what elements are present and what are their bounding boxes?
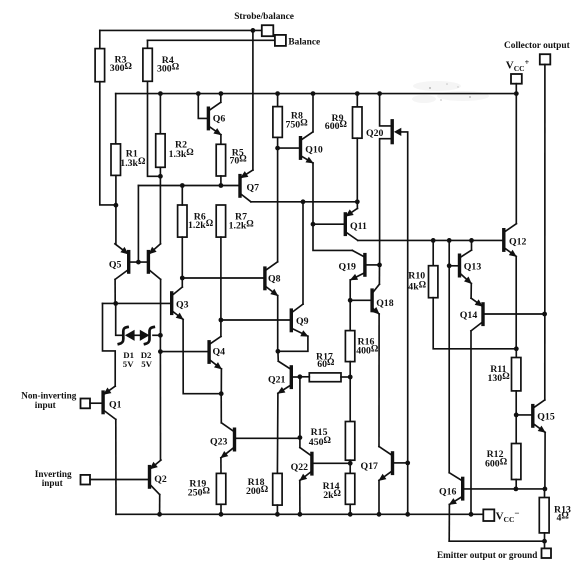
junction Q5 left emitter Q3 base xyxy=(113,301,118,306)
junction Q4 emitter Q3 emitter xyxy=(219,391,224,396)
svg-text:Q16: Q16 xyxy=(439,487,457,498)
svg-text:Q20: Q20 xyxy=(366,128,384,139)
svg-text:Q6: Q6 xyxy=(213,114,226,125)
resistor R5 xyxy=(216,144,225,176)
junction R10 top xyxy=(431,238,436,243)
junction Q13 base col xyxy=(447,238,452,243)
wire Q13 emitter to Q14 xyxy=(470,284,472,299)
wire Q1 base lead xyxy=(90,402,102,404)
wire Q23 emitter to R19 xyxy=(220,458,222,474)
wire Vcc+ lead xyxy=(515,84,517,94)
wire Q14 collector down to rail xyxy=(470,331,472,514)
wire R3 top lead xyxy=(99,30,101,48)
resistor R19 xyxy=(216,473,225,504)
wire Q2 emitter down xyxy=(159,495,161,515)
wire Q5 left collector down xyxy=(114,279,116,303)
junction Q23 base Q22 collector xyxy=(298,435,303,440)
junction strobe node xyxy=(251,28,256,33)
svg-text:Q21: Q21 xyxy=(268,375,286,386)
wire R1 top lead xyxy=(115,94,117,144)
svg-text:Q10: Q10 xyxy=(305,145,323,156)
junction R12 bottom xyxy=(514,487,519,492)
svg-text:5V: 5V xyxy=(123,359,134,369)
junction bus Q10 xyxy=(311,91,316,96)
wire R13 bottom lead xyxy=(544,533,546,541)
wire R11 bottom lead xyxy=(515,391,517,415)
svg-text:Q11: Q11 xyxy=(350,221,367,232)
junction R2 R4 xyxy=(158,174,163,179)
wire R6 top lead xyxy=(181,186,183,206)
junction Q9 base R7 line xyxy=(219,318,224,323)
wire R19 bottom lead xyxy=(220,504,222,514)
terminal Strobe/balance xyxy=(262,25,274,36)
junction R1 R3 xyxy=(114,203,119,208)
junction rail Q20 line xyxy=(405,512,410,517)
junction R13 emitter output xyxy=(542,539,547,544)
wire Q1 collector up with jog xyxy=(103,303,116,386)
wire Vcc+ bus xyxy=(116,93,517,95)
wire R13 top lead xyxy=(544,489,546,498)
wire Q17 base xyxy=(394,462,408,464)
resistor R16 xyxy=(345,331,354,362)
resistor R8 xyxy=(273,107,282,138)
transistor Q15 xyxy=(533,400,546,433)
wire D2 to node xyxy=(153,334,160,336)
resistor R14 xyxy=(345,473,354,504)
wire R6 bottom lead xyxy=(181,237,183,278)
wire node to Q5 right emitter xyxy=(159,176,161,244)
junction R11 Q12 emitter xyxy=(514,346,519,351)
wire R3 bottom to R1 node xyxy=(100,82,116,205)
resistor R4 xyxy=(143,48,152,81)
wire Q6 emitter to R5 xyxy=(220,135,222,145)
wire to R12 xyxy=(515,415,517,444)
resistor R12 xyxy=(512,444,521,480)
transistor Q13 xyxy=(460,250,472,284)
junction bus Q20 xyxy=(377,91,382,96)
wire to emitter output terminal xyxy=(544,541,546,548)
wire down to Q23 collector xyxy=(220,394,222,423)
wire Q18 base xyxy=(350,299,370,301)
junction Q11 base tap xyxy=(311,222,316,227)
wire R8 node to Q8 collector xyxy=(277,148,279,262)
wire Q8 base line xyxy=(182,277,263,279)
svg-text:Q19: Q19 xyxy=(339,261,357,272)
transistor Q18 xyxy=(372,284,380,314)
junction Q4 base xyxy=(158,349,163,354)
terminal Collector output xyxy=(540,54,551,64)
wire D1 D2 anodes xyxy=(135,334,140,336)
junction R6 top xyxy=(180,183,185,188)
svg-text:Q5: Q5 xyxy=(109,260,122,271)
wire down to Q16 collector xyxy=(448,266,450,473)
resistor R10 xyxy=(429,266,438,298)
wire Q22 collector up xyxy=(299,438,301,448)
transistor Q9 xyxy=(291,304,308,337)
svg-text:Q18: Q18 xyxy=(376,298,394,309)
diode D2 5V zener xyxy=(140,327,154,344)
junction bus R9 xyxy=(355,91,360,96)
wire R18 bottom lead xyxy=(276,505,278,514)
terminal Balance xyxy=(275,35,286,46)
transistor Q23 xyxy=(220,423,234,459)
junction R17 Q21 base xyxy=(298,374,303,379)
svg-text:Balance: Balance xyxy=(288,37,320,47)
transistor Q7 xyxy=(240,170,253,202)
wire R14 bottom lead xyxy=(349,504,351,514)
transistor Q3 xyxy=(172,287,184,320)
wire Q11 collector line to Q12 base xyxy=(358,239,502,241)
wire Q7 base line xyxy=(138,185,238,187)
wire Q6 base xyxy=(198,94,207,119)
wire Q22 base xyxy=(314,462,351,464)
wire R2 bottom lead xyxy=(159,167,161,176)
wire R4 top lead xyxy=(147,40,149,48)
wire R5 bottom lead xyxy=(220,176,222,186)
transistor Q5L xyxy=(115,244,129,280)
transistor Q16 xyxy=(449,473,463,505)
resistor R9 xyxy=(353,107,363,138)
resistor R1 xyxy=(111,144,121,176)
junction D2 Q5 right xyxy=(158,333,163,338)
wire Q20 line to rail xyxy=(407,463,409,514)
wire R9 bottom lead xyxy=(356,138,358,202)
wire R15 to R14 xyxy=(349,460,351,473)
svg-text:input: input xyxy=(35,400,57,410)
junction Q19 base Q20 Q18 xyxy=(377,263,382,268)
wire node to Q22 collector junction xyxy=(299,377,301,438)
junction R9 Q11 xyxy=(355,199,360,204)
junction Q13 base Q16 collector xyxy=(447,263,452,268)
wire Q13 base xyxy=(449,265,458,267)
junction R5 R7 xyxy=(219,183,224,188)
terminal non-inverting input xyxy=(81,399,91,409)
svg-text:Q7: Q7 xyxy=(247,182,260,193)
svg-text:Q9: Q9 xyxy=(296,316,309,327)
junction Q17 base Q20 line xyxy=(405,461,410,466)
wire Q9 collector up xyxy=(302,202,304,304)
wire strobe bus xyxy=(100,29,262,31)
svg-text:Q8: Q8 xyxy=(268,274,281,285)
wire R12 bottom lead xyxy=(515,480,517,489)
wire R2 top lead xyxy=(159,94,161,134)
transistor Q21 xyxy=(277,361,291,394)
wire Q19 base xyxy=(366,264,379,266)
wire Q3 emitter down xyxy=(183,319,221,393)
wire Q5 common base xyxy=(130,261,147,263)
wire Q10 collector to bus xyxy=(312,94,314,132)
terminal Vcc+ xyxy=(511,74,522,84)
transistor Q12 xyxy=(504,224,517,257)
wire R16 to R15 xyxy=(349,362,351,422)
wire Q21 emitter to R18 xyxy=(276,393,279,473)
svg-text:Q3: Q3 xyxy=(176,300,189,311)
transistor Q20 xyxy=(380,94,408,463)
wire Q19 emitter to R16 xyxy=(349,280,351,331)
wire collector output vertical xyxy=(544,65,546,400)
wire R1 bottom lead xyxy=(115,175,117,205)
svg-text:Q17: Q17 xyxy=(361,461,379,472)
junction bus Q6 collector xyxy=(219,91,224,96)
terminal inverting input xyxy=(81,475,91,485)
svg-text:Collector output: Collector output xyxy=(504,41,571,51)
wire R10 top lead xyxy=(432,240,434,265)
junction R6 Q3 collector Q8 base xyxy=(180,276,185,281)
wire Q10 base xyxy=(278,147,299,149)
svg-text:Q13: Q13 xyxy=(464,262,482,273)
svg-text:Q4: Q4 xyxy=(213,347,226,358)
junction bus R8 xyxy=(275,91,280,96)
svg-text:Q12: Q12 xyxy=(509,236,527,247)
wire Q22 emitter down xyxy=(299,481,301,515)
transistor Q11 xyxy=(345,208,358,240)
resistor R15 xyxy=(345,422,354,461)
diode D1 5V zener xyxy=(119,327,135,344)
wire node to Q4 base node xyxy=(159,335,161,351)
wire Q15 emitter down xyxy=(544,432,546,489)
wire Q18 emitter to Q17 collector xyxy=(378,314,380,447)
wire Q14 base xyxy=(485,313,545,315)
transistor Q2 xyxy=(150,460,162,495)
wire Q4 base xyxy=(160,351,207,353)
wire Q16 base line xyxy=(464,488,545,490)
resistor R2 xyxy=(156,134,165,168)
wire node to Q21 collector xyxy=(277,351,279,361)
wire Q11 emitter up xyxy=(356,202,358,209)
svg-text:Emitter output or ground: Emitter output or ground xyxy=(437,550,537,560)
svg-text:Q23: Q23 xyxy=(210,437,228,448)
transistor Q8 xyxy=(265,262,278,296)
wire Q11 base xyxy=(313,223,344,225)
svg-text:input: input xyxy=(42,478,64,488)
transistor Q5R xyxy=(148,244,160,280)
junction Q9 collector tap xyxy=(301,199,306,204)
svg-text:Strobe/balance: Strobe/balance xyxy=(234,12,294,22)
wire R4 bottom to R2 node xyxy=(148,81,161,176)
wire R9 top lead xyxy=(356,94,358,107)
resistor R13 xyxy=(539,498,549,533)
transistor Q4 xyxy=(209,336,222,369)
junction Q18 base tap xyxy=(348,298,353,303)
svg-text:Q14: Q14 xyxy=(460,310,478,321)
wire Q15 base xyxy=(516,414,531,416)
wire R17 right lead xyxy=(341,376,350,378)
wire R17 left lead xyxy=(300,376,309,378)
resistor R11 xyxy=(512,358,521,391)
svg-text:Q1: Q1 xyxy=(109,399,122,410)
junction R11 R12 Q15 base xyxy=(514,413,519,418)
wire Q1 emitter down to rail xyxy=(115,419,117,514)
terminal emitter output or ground xyxy=(542,548,552,558)
wire Q12 emitter down xyxy=(515,256,517,348)
junction Q5 base xyxy=(136,260,141,265)
transistor Q14 xyxy=(471,298,483,331)
transistor Q6 xyxy=(208,102,221,135)
wire emitter output line xyxy=(449,540,544,542)
wire Q13 collector up xyxy=(471,240,473,250)
wire Q17 emitter down xyxy=(378,480,380,514)
svg-text:5V: 5V xyxy=(141,359,152,369)
junction bus Q6 base xyxy=(196,91,201,96)
junction R15 R14 Q22 base xyxy=(348,461,353,466)
terminal Vcc- xyxy=(483,509,494,521)
wire R8 bottom lead xyxy=(277,137,279,148)
resistor R18 xyxy=(273,473,282,505)
wire Vcc+ to Q12 collector xyxy=(515,94,517,224)
wire Q3 base line xyxy=(103,302,171,304)
wire Vcc- rail xyxy=(116,513,483,515)
svg-text:Q15: Q15 xyxy=(537,412,555,423)
transistor Q1 xyxy=(103,386,116,419)
wire Q21 base xyxy=(293,376,300,378)
junction rail Q2 xyxy=(157,512,162,517)
junction bus R2 xyxy=(158,91,163,96)
junction Q14 base collector output line xyxy=(542,312,547,317)
junction R8 Q10 base xyxy=(275,146,280,151)
wire balance xyxy=(148,39,275,41)
svg-text:Q22: Q22 xyxy=(291,462,309,473)
junction rail Q17 xyxy=(377,512,382,517)
wire Q9 base line xyxy=(221,319,290,321)
wire down to Q2 collector xyxy=(159,352,161,460)
transistor Q22 xyxy=(299,448,312,482)
wire Q3 collector up xyxy=(181,278,183,287)
transistor Q17 xyxy=(378,447,392,481)
wire Q23 base xyxy=(236,437,300,439)
wire to D1 cathode xyxy=(116,303,123,335)
resistor R3 xyxy=(95,49,105,82)
junction rail R18 xyxy=(275,512,280,517)
junction bus Vcc+ xyxy=(514,91,519,96)
resistor R7 xyxy=(216,205,225,237)
wire R11 top lead xyxy=(515,349,517,358)
wire R8 top lead xyxy=(277,94,279,107)
wire R7 bottom to Q4 collector xyxy=(220,237,222,336)
wire R10 bottom to R11 node xyxy=(433,298,516,349)
resistor R17 horizontal xyxy=(309,373,341,382)
junction rail Q22 xyxy=(298,512,303,517)
resistor R6 xyxy=(178,205,187,237)
svg-text:Q2: Q2 xyxy=(154,474,167,485)
junction Q15 emitter R13 xyxy=(543,487,548,492)
wire Q13 base col xyxy=(448,240,450,265)
wire Q10 emitter to Q19 collector xyxy=(313,163,352,250)
wire Q7 collector line xyxy=(251,201,357,203)
wire node to Q5 left emitter xyxy=(115,205,117,244)
wire Q8 emitter down xyxy=(277,296,279,352)
wire Q2 base lead xyxy=(90,479,148,481)
junction Q8 Q9 emitters xyxy=(276,349,281,354)
wire Q4 emitter down xyxy=(220,369,222,394)
junction Q13 collector xyxy=(469,238,474,243)
wire down to Q5 common base xyxy=(137,186,139,263)
wire strobe vertical to Q7 emitter xyxy=(252,30,254,170)
wire Q18 collector up xyxy=(378,265,380,284)
transistor Q10 xyxy=(301,132,314,164)
wire Q16 emitter down xyxy=(448,505,450,542)
junction rail R14 xyxy=(348,512,353,517)
wire Q5 right collector down xyxy=(160,279,162,335)
transistor Q19 xyxy=(350,250,365,280)
wire Q9 emitter to node xyxy=(278,336,308,351)
junction rail R19 xyxy=(219,512,224,517)
junction rail Q14 xyxy=(469,512,474,517)
junction R17 right xyxy=(348,375,353,380)
wire Q6 collector to bus xyxy=(220,94,222,103)
